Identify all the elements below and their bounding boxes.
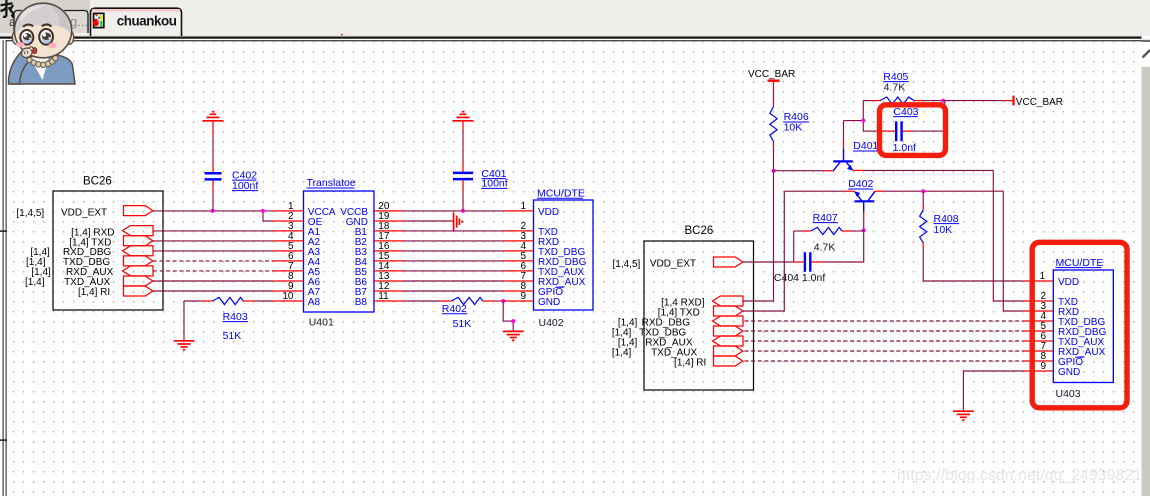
svg-text:Translatoe: Translatoe <box>307 177 356 189</box>
partial chinese glyph top-left <box>1 0 15 18</box>
svg-text:[1,4]: [1,4] <box>25 277 45 288</box>
capacitor C403 <box>863 101 945 154</box>
ground (red, below U402) <box>503 331 524 340</box>
port RI (left) <box>124 286 153 296</box>
svg-text:VCC_BAR: VCC_BAR <box>1016 97 1063 108</box>
svg-text:g...: g... <box>70 14 88 29</box>
svg-text:R408: R408 <box>934 213 959 225</box>
port VDD_EXT (right) <box>714 257 743 267</box>
port TXD_AUX (right) <box>714 346 743 356</box>
port RI (right) <box>714 356 743 366</box>
resistor R406 <box>770 102 809 148</box>
node junction R408 top <box>921 189 925 193</box>
svg-text:MCU/DTE: MCU/DTE <box>537 187 585 199</box>
ground (red, above C401) <box>453 112 474 121</box>
left arm sleeve <box>8 52 31 85</box>
wire VCCB to U402 VDD <box>404 210 504 212</box>
capacitor C401 <box>453 122 508 211</box>
ground (red, above C402) <box>203 112 224 121</box>
wire VCC to R406 <box>773 90 775 102</box>
U402 pin names <box>538 207 587 308</box>
port RXD (left) <box>123 226 154 236</box>
white collar <box>30 57 49 81</box>
power port VCC_BAR (top) <box>748 69 795 90</box>
right scrollbar <box>1142 36 1150 496</box>
svg-text:R407: R407 <box>813 212 838 224</box>
resistor R403 <box>184 297 274 342</box>
svg-text:C403: C403 <box>893 106 918 118</box>
resistor R408 <box>920 191 960 248</box>
wire R408 to U403 VDD <box>923 248 1023 281</box>
transistor D401 <box>824 140 878 171</box>
port TXD_AUX (left) <box>124 276 153 286</box>
tab document icon <box>93 13 104 27</box>
wire R407 left drop <box>793 231 795 262</box>
svg-text:GND: GND <box>538 297 560 308</box>
svg-text:[1,4,5]: [1,4,5] <box>612 259 640 270</box>
wire TXD_AUX row <box>153 280 274 282</box>
hand <box>22 47 34 58</box>
svg-text:R402: R402 <box>442 303 467 315</box>
svg-text:MCU/DTE: MCU/DTE <box>1056 257 1104 269</box>
wire U403 GND to ground <box>963 371 1023 411</box>
head <box>14 3 71 58</box>
wire R403 to ground <box>183 301 185 340</box>
svg-text:4.7K: 4.7K <box>884 81 906 93</box>
svg-text:[1,4]: [1,4] <box>612 347 632 358</box>
head outline <box>14 3 71 58</box>
wire OE branch <box>263 211 274 221</box>
svg-text:100nf: 100nf <box>232 180 258 192</box>
svg-text:chuankou: chuankou <box>117 14 177 29</box>
node junction C402 <box>211 209 215 213</box>
node junction C403 left <box>861 119 865 123</box>
wire GND row pin19 <box>404 220 450 222</box>
node junction GND2 <box>511 319 515 323</box>
wire TXD_DBG row (dashed) <box>153 260 274 262</box>
highlight red box C403 <box>880 105 946 156</box>
svg-text:U401: U401 <box>309 316 334 328</box>
svg-text:VDD_EXT: VDD_EXT <box>61 208 107 219</box>
wire TXD up to D402 row <box>743 191 785 311</box>
svg-text:BC26: BC26 <box>685 225 714 237</box>
svg-text:10: 10 <box>282 291 294 302</box>
svg-text:https://blog.csdn.net/qq_24939: https://blog.csdn.net/qq_24939821 <box>897 467 1142 484</box>
ground (red, rotated right) <box>454 213 463 231</box>
IC U403 MCU/DTE <box>1053 257 1113 400</box>
port TXD (left) <box>124 236 153 246</box>
wire RI row <box>153 290 274 292</box>
svg-text:1.0nf: 1.0nf <box>893 142 916 154</box>
port RXD (right) <box>713 296 744 306</box>
node junction OE <box>261 209 265 213</box>
ground (red, below R403) <box>174 341 195 350</box>
wire RXD_DBG dashed <box>745 320 1024 322</box>
bar bottom edge <box>0 35 1142 38</box>
svg-text:U403: U403 <box>1056 388 1081 400</box>
wire vertical to U403 RXD <box>1003 191 1023 311</box>
svg-text:51K: 51K <box>453 318 472 330</box>
schematic sheet top border <box>6 40 1142 41</box>
U403 pin names <box>1058 277 1107 378</box>
wire VDD_EXT to C404 <box>743 261 794 263</box>
wire RXD_AUX row (dashed) <box>153 270 274 272</box>
wire RXD up to junction <box>743 171 774 301</box>
wire TXD_AUX dashed <box>745 350 1024 352</box>
ground (red, below U403) <box>953 411 974 420</box>
component BC26 (right module) <box>644 225 754 390</box>
svg-text:C404 1.0nf: C404 1.0nf <box>774 272 825 284</box>
wire to VCC_BAR right <box>943 100 1003 102</box>
svg-text:1: 1 <box>520 201 526 212</box>
wire VDD_EXT row <box>153 210 274 212</box>
wire RXD_DBG row <box>153 250 274 252</box>
hair <box>15 3 72 34</box>
node junction C401 <box>461 209 465 213</box>
svg-text:D402: D402 <box>848 178 873 190</box>
wire D402 emitter down <box>863 221 865 230</box>
U402 pin numbers <box>520 201 526 302</box>
svg-text:10K: 10K <box>784 122 803 134</box>
baby body robe <box>11 55 76 84</box>
port RXD_DBG (left) <box>123 246 154 256</box>
svg-text:D401: D401 <box>853 140 878 152</box>
wire D401 emitter row to east <box>863 169 993 171</box>
svg-text:4.7K: 4.7K <box>814 242 836 254</box>
wire D402 row left <box>784 190 845 192</box>
U401 pin numbers right <box>378 201 390 302</box>
svg-text:VCC_BAR: VCC_BAR <box>748 69 795 80</box>
port TXD_DBG (right) <box>714 326 743 336</box>
node junction R405 right <box>941 99 945 103</box>
wire vertical to U403 TXD <box>993 170 1023 301</box>
active tab chuankou <box>91 8 182 36</box>
wire RXD_AUX dashed <box>745 340 1024 342</box>
svg-text:VDD: VDD <box>1058 277 1079 288</box>
U403 pin numbers <box>1039 271 1046 372</box>
node junction R407/C404 <box>862 228 866 232</box>
svg-text:[1,4] RI: [1,4] RI <box>78 287 110 298</box>
wire base row to D401 <box>774 170 825 172</box>
ears <box>12 31 20 45</box>
svg-text:[1,4] RI: [1,4] RI <box>674 357 706 368</box>
port RXD_AUX (left) <box>123 266 154 276</box>
svg-text:[1,4,5]: [1,4,5] <box>16 208 44 219</box>
U402 pins <box>504 211 534 301</box>
port RXD_DBG (right) <box>713 316 744 326</box>
wire D401 collector up <box>844 121 864 141</box>
U401 left pins 1-10 <box>274 211 304 301</box>
left eye <box>20 30 33 45</box>
eyebrows <box>23 25 33 27</box>
wire RI dashed <box>745 360 1024 362</box>
wire D402 row right <box>884 190 1003 192</box>
wires B1-B7 to U402 <box>404 231 504 291</box>
necklace beads <box>27 56 58 68</box>
svg-text:1: 1 <box>1039 271 1045 282</box>
U401 pin names <box>308 207 336 308</box>
mouth <box>33 48 37 54</box>
IC U401 Translatoe <box>304 177 375 328</box>
svg-text:10K: 10K <box>934 224 953 236</box>
svg-text:R403: R403 <box>223 311 248 323</box>
node junction GND <box>501 299 505 303</box>
border tick left <box>0 230 7 231</box>
svg-text:51K: 51K <box>223 330 242 342</box>
capacitor C404 <box>774 230 864 284</box>
U403 pins <box>1023 281 1053 371</box>
svg-text:9: 9 <box>520 291 526 302</box>
resistor R405 <box>863 71 943 104</box>
svg-text:9: 9 <box>1040 361 1046 372</box>
sheet left border <box>3 40 4 496</box>
node junction R406 <box>772 169 776 173</box>
highlight red box U403 <box>1032 242 1127 407</box>
port RXD_AUX (right) <box>713 336 744 346</box>
svg-text:U402: U402 <box>539 317 564 329</box>
avatar watermark <box>1 0 76 84</box>
U401 right pins 20-11 <box>374 211 404 301</box>
inactive tab <box>9 11 88 34</box>
right eye <box>39 29 53 45</box>
tab bar background <box>0 0 1150 36</box>
svg-text:100nf: 100nf <box>481 178 507 190</box>
blush <box>16 42 25 47</box>
port TXD (right) <box>714 306 743 316</box>
power port VCC_BAR (right) <box>1014 96 1064 108</box>
wire TXD_DBG dashed <box>745 330 1024 332</box>
transistor D402 <box>845 178 884 221</box>
U401 pin numbers left <box>282 201 294 302</box>
port TXD_DBG (left) <box>124 256 153 266</box>
component BC26 (left module) <box>53 176 163 310</box>
svg-text:VDD: VDD <box>538 207 559 218</box>
wire GND drop <box>503 301 513 331</box>
resistor R407 <box>794 212 864 254</box>
svg-text:A8: A8 <box>308 297 321 308</box>
wire TXD row <box>153 240 274 242</box>
capacitor C402 <box>205 122 259 211</box>
svg-text:BC26: BC26 <box>83 176 112 188</box>
svg-text:VDD_EXT: VDD_EXT <box>650 258 696 269</box>
resistor R402 <box>404 297 504 330</box>
svg-text:B8: B8 <box>355 297 368 308</box>
port VDD_EXT (left) <box>124 206 153 216</box>
wire R405/C403 left vertical <box>862 101 864 132</box>
svg-text:11: 11 <box>378 291 389 302</box>
wire R406 to junction <box>773 147 775 171</box>
IC U402 MCU/DTE <box>534 187 594 328</box>
svg-text:GND: GND <box>1058 367 1080 378</box>
wire RXD row <box>153 230 274 232</box>
